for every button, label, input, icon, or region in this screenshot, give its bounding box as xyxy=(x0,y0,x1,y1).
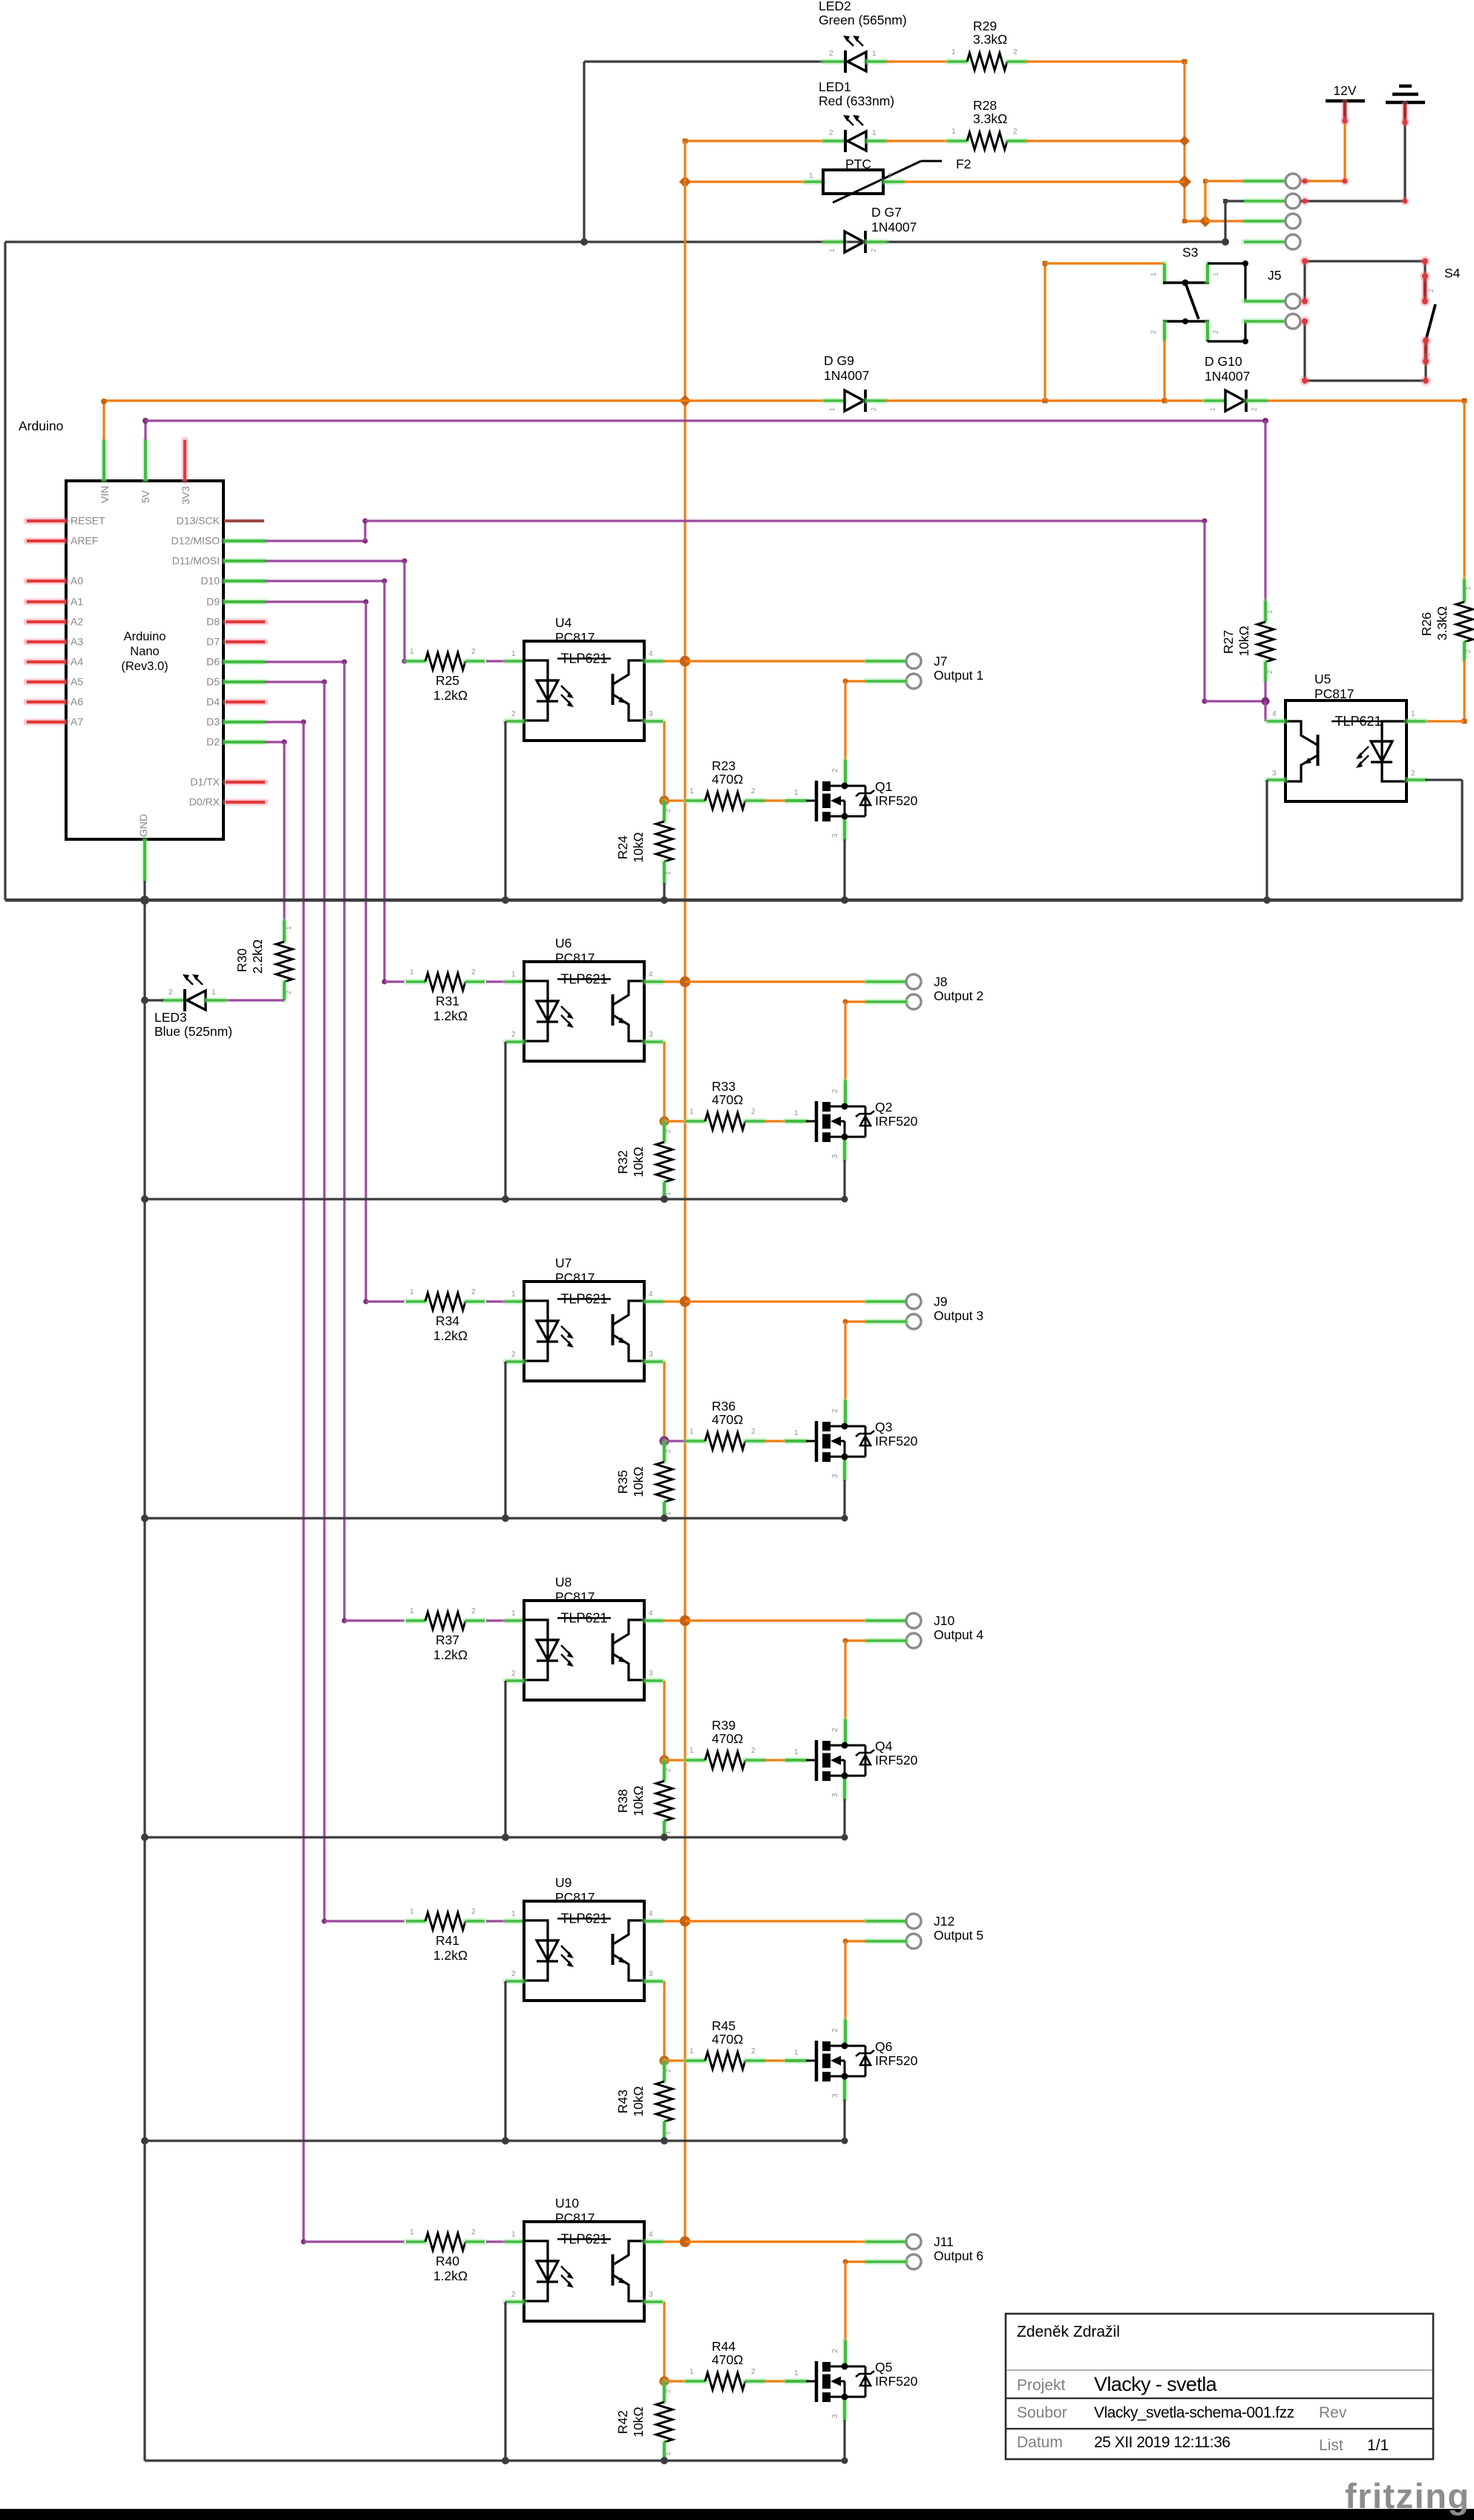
svg-text:10kΩ: 10kΩ xyxy=(1236,626,1251,656)
wire J9 pin2 to Q3 drain xyxy=(845,1320,866,1322)
svg-text:470Ω: 470Ω xyxy=(712,2352,743,2367)
svg-text:470Ω: 470Ω xyxy=(712,1412,743,1427)
wire 12V vertical bus xyxy=(684,141,686,2242)
svg-text:R45: R45 xyxy=(712,2018,736,2033)
svg-text:1: 1 xyxy=(794,2049,799,2057)
svg-text:D11/MOSI: D11/MOSI xyxy=(172,555,220,567)
pin D10 lead xyxy=(223,578,265,584)
pin RESET stub xyxy=(27,518,66,525)
svg-text:3: 3 xyxy=(831,1793,839,1797)
svg-text:D7: D7 xyxy=(206,636,220,648)
wire 12V bus to J10 pin1 xyxy=(685,1619,866,1621)
pin VIN lead xyxy=(101,440,107,481)
svg-text:Vlacky - svetla: Vlacky - svetla xyxy=(1094,2373,1218,2395)
svg-text:Blue (525nm): Blue (525nm) xyxy=(154,1024,232,1039)
svg-text:R40: R40 xyxy=(436,2254,459,2268)
svg-text:2: 2 xyxy=(664,809,672,813)
pin AREF stub xyxy=(27,538,66,545)
wire U4 pin4 to 12V bus xyxy=(663,660,685,662)
svg-text:2: 2 xyxy=(511,1351,516,1359)
pin GND lead xyxy=(142,839,148,881)
svg-text:LED3: LED3 xyxy=(154,1010,187,1025)
resistor R39 470 xyxy=(686,1757,705,1763)
pin U6.1 lead xyxy=(505,979,524,985)
svg-text:R29: R29 xyxy=(973,19,997,33)
svg-text:U10: U10 xyxy=(555,2196,579,2211)
svg-text:4: 4 xyxy=(649,650,653,658)
wire R41 to U9 pin1 xyxy=(486,1920,507,1922)
svg-text:Q4: Q4 xyxy=(875,1739,893,1753)
node gate Q5 xyxy=(659,2376,669,2386)
pin U9.2 lead xyxy=(505,1978,524,1984)
svg-text:1.2kΩ: 1.2kΩ xyxy=(433,2268,468,2283)
svg-text:A5: A5 xyxy=(71,676,83,688)
svg-text:470Ω: 470Ω xyxy=(712,2032,743,2047)
pin U4.2 lead xyxy=(505,718,524,724)
svg-text:2: 2 xyxy=(511,2291,516,2299)
wire D10 to R31 xyxy=(265,580,384,582)
wire U4 pin2 to ground bus xyxy=(504,721,506,900)
svg-text:1: 1 xyxy=(511,1290,516,1299)
svg-text:J11: J11 xyxy=(934,2234,954,2249)
pin Q4.1 gate lead xyxy=(785,1757,806,1763)
svg-text:U7: U7 xyxy=(555,1256,571,1270)
svg-text:3: 3 xyxy=(831,1154,839,1158)
svg-text:U4: U4 xyxy=(555,615,572,630)
svg-text:D5: D5 xyxy=(206,676,220,688)
wire gate node to R44 xyxy=(664,2380,687,2382)
pin J8.1 lead xyxy=(866,979,906,985)
svg-text:J7: J7 xyxy=(934,654,947,669)
svg-text:1: 1 xyxy=(1212,272,1219,276)
pin Q3.2 drain lead xyxy=(842,1400,848,1426)
pin D7 stub xyxy=(226,639,265,646)
svg-text:10kΩ: 10kΩ xyxy=(631,2406,646,2437)
wire ground to header pin2 xyxy=(1403,122,1406,201)
resistor R33 470 xyxy=(686,1118,705,1124)
wire U9 pin2 to ground bus xyxy=(504,1981,506,2141)
svg-text:PC817: PC817 xyxy=(555,630,595,645)
svg-text:2: 2 xyxy=(751,1108,756,1116)
svg-text:1.2kΩ: 1.2kΩ xyxy=(433,1948,468,1963)
wire ground bus 2 xyxy=(145,1198,847,1200)
svg-text:2: 2 xyxy=(831,1727,839,1732)
wire PTC to 12V riser xyxy=(903,180,1185,183)
wire PTC row xyxy=(685,180,805,183)
svg-text:Rev: Rev xyxy=(1319,2404,1347,2421)
svg-text:D G10: D G10 xyxy=(1205,354,1242,369)
svg-text:1: 1 xyxy=(410,968,414,977)
svg-text:3: 3 xyxy=(649,2291,653,2299)
svg-text:2: 2 xyxy=(168,988,173,997)
svg-text:4: 4 xyxy=(649,1610,653,1618)
resistor R24 10k xyxy=(661,801,667,821)
pin Q6.2 drain lead xyxy=(842,2020,848,2046)
pin A5 stub xyxy=(27,679,66,686)
svg-text:R28: R28 xyxy=(973,98,997,113)
pin Q5.1 gate lead xyxy=(785,2378,806,2384)
svg-text:1: 1 xyxy=(511,971,516,979)
svg-text:1: 1 xyxy=(794,789,799,797)
svg-text:3: 3 xyxy=(649,1031,653,1039)
wire R28 to 12V rail xyxy=(1025,140,1185,142)
svg-text:Zdeněk Zdražil: Zdeněk Zdražil xyxy=(1017,2323,1120,2340)
resistor R45 470 xyxy=(686,2058,705,2064)
svg-text:2: 2 xyxy=(1013,128,1018,136)
wire R44 to Q5 gate xyxy=(764,2380,787,2382)
pin J10.1 lead xyxy=(866,1618,906,1624)
svg-text:A3: A3 xyxy=(71,636,83,648)
svg-text:D13/SCK: D13/SCK xyxy=(177,515,220,527)
svg-text:PTC: PTC xyxy=(845,157,871,171)
pin U5.4 lead xyxy=(1267,718,1285,724)
pin Q1.1 gate lead xyxy=(785,798,806,804)
svg-text:D0/RX: D0/RX xyxy=(189,796,220,808)
wire U9 pin4 to 12V bus xyxy=(663,1920,685,1922)
svg-text:2: 2 xyxy=(831,2349,839,2353)
junction 12V D G9 xyxy=(679,395,691,407)
svg-text:R42: R42 xyxy=(615,2410,630,2434)
wire U7 pin4 to 12V bus xyxy=(663,1300,685,1302)
resistor R28 3.3k xyxy=(948,138,967,144)
svg-text:LED1: LED1 xyxy=(819,79,851,94)
svg-text:Arduino: Arduino xyxy=(124,630,166,643)
svg-text:U9: U9 xyxy=(555,1875,571,1890)
svg-text:1/1: 1/1 xyxy=(1367,2437,1389,2454)
wire U8 pin3 to gate node xyxy=(663,1681,665,1760)
svg-text:3V3: 3V3 xyxy=(180,486,191,505)
svg-text:R39: R39 xyxy=(712,1718,736,1733)
wire Q3 source to ground bus xyxy=(842,1457,848,1480)
svg-text:2: 2 xyxy=(831,1089,839,1093)
pin U9.1 lead xyxy=(505,1918,524,1924)
connector header 4pin xyxy=(1244,178,1285,184)
svg-text:R32: R32 xyxy=(615,1150,630,1174)
wire D9 to R34 xyxy=(265,600,366,603)
pin 3V3 stub xyxy=(182,440,189,481)
wire gate node to R23 xyxy=(664,799,687,801)
svg-text:R25: R25 xyxy=(436,673,459,688)
node gate Q4 xyxy=(659,1755,669,1765)
wire 12V rail to LED1 xyxy=(685,140,823,142)
svg-text:R41: R41 xyxy=(436,1933,459,1948)
svg-text:J8: J8 xyxy=(934,974,947,989)
svg-text:4: 4 xyxy=(1272,710,1277,718)
wire 12V bus to J9 pin1 xyxy=(685,1300,866,1302)
pin A6 stub xyxy=(27,699,66,706)
svg-text:PC817: PC817 xyxy=(555,1589,595,1604)
svg-text:Output 3: Output 3 xyxy=(934,1308,983,1323)
wire R34 to U7 pin1 xyxy=(486,1300,507,1302)
svg-text:1: 1 xyxy=(664,1192,672,1195)
svg-text:2: 2 xyxy=(1266,670,1274,674)
svg-text:A4: A4 xyxy=(71,656,83,668)
svg-text:2: 2 xyxy=(831,768,839,772)
svg-text:10kΩ: 10kΩ xyxy=(631,1146,646,1177)
wire D G10 to U5 pin1 xyxy=(1267,399,1464,401)
wire U10 pin2 to ground bus xyxy=(504,2302,506,2461)
wire U4 pin3 to gate node xyxy=(663,721,665,801)
svg-text:D8: D8 xyxy=(206,616,220,628)
svg-text:1: 1 xyxy=(511,2231,516,2239)
pin U7.1 lead xyxy=(505,1299,524,1305)
svg-text:Q1: Q1 xyxy=(875,779,892,794)
wire U8 pin4 to 12V bus xyxy=(663,1619,685,1621)
wire 12V bus to J8 pin1 xyxy=(685,980,866,982)
svg-text:1: 1 xyxy=(872,129,877,137)
resistor R43 10k xyxy=(661,2061,667,2081)
svg-text:2.2kΩ: 2.2kΩ xyxy=(250,939,265,974)
svg-text:AREF: AREF xyxy=(71,535,98,547)
svg-text:1: 1 xyxy=(410,1288,414,1296)
svg-text:R24: R24 xyxy=(615,836,630,859)
svg-text:U8: U8 xyxy=(555,1575,571,1589)
svg-text:2: 2 xyxy=(1013,48,1018,56)
pin D9 lead xyxy=(223,599,265,605)
LED LED2 xyxy=(823,59,845,65)
pin U8.1 lead xyxy=(505,1618,524,1624)
wire 12V bus to J7 pin1 xyxy=(685,660,866,662)
svg-text:2: 2 xyxy=(751,787,756,795)
svg-text:D4: D4 xyxy=(206,696,220,708)
wire J12 pin2 to Q6 drain xyxy=(845,1940,866,1942)
resistor R23 470 xyxy=(686,798,705,804)
wire J7 pin2 to Q1 drain xyxy=(845,680,866,682)
svg-text:D3: D3 xyxy=(206,716,220,728)
pin U7.4 lead xyxy=(644,1299,663,1305)
svg-text:4: 4 xyxy=(649,1290,653,1299)
optocoupler U8 PC817 xyxy=(524,1601,644,1700)
bottom bar xyxy=(0,2509,1474,2520)
pin U8.2 lead xyxy=(505,1678,524,1684)
resistor R26 3.3k xyxy=(1463,401,1465,580)
svg-text:1: 1 xyxy=(1464,586,1472,590)
svg-text:2: 2 xyxy=(664,2389,672,2393)
svg-text:D9: D9 xyxy=(206,596,220,608)
transistor Q2 IRF520 xyxy=(806,1120,816,1123)
svg-text:1: 1 xyxy=(951,128,956,136)
svg-text:U6: U6 xyxy=(555,936,571,951)
wire U7 pin3 to gate node xyxy=(663,1362,665,1441)
svg-text:4: 4 xyxy=(649,1910,653,1918)
pin J9.1 lead xyxy=(866,1299,906,1305)
svg-text:2: 2 xyxy=(285,991,292,994)
svg-text:R36: R36 xyxy=(712,1399,736,1414)
LED LED3 xyxy=(163,997,185,1003)
wire header pin2 gnd branch xyxy=(1225,200,1244,202)
svg-text:Datum: Datum xyxy=(1017,2434,1063,2451)
wire U10 pin4 to 12V bus xyxy=(663,2240,685,2242)
connector J10 xyxy=(906,1613,921,1628)
pin U10.4 lead xyxy=(644,2239,663,2245)
wire R40 to U10 pin1 xyxy=(486,2240,507,2242)
svg-text:Output 4: Output 4 xyxy=(934,1627,983,1642)
optocoupler U9 PC817 xyxy=(524,1901,644,2001)
wire 12V riser right xyxy=(1183,62,1185,221)
wire Q6 source to ground bus xyxy=(842,2076,848,2099)
pin U10.2 lead xyxy=(505,2299,524,2305)
wire VIN to 12V input xyxy=(102,401,105,440)
wire D6 to R37 xyxy=(265,660,344,663)
svg-text:Output 1: Output 1 xyxy=(934,668,983,683)
pin U4.3 lead xyxy=(644,718,663,724)
svg-text:3.3kΩ: 3.3kΩ xyxy=(1435,606,1450,640)
wire J11 pin2 to Q5 drain xyxy=(845,2260,866,2263)
wire U6 pin4 to 12V bus xyxy=(663,980,685,982)
wire gate node to R36 xyxy=(664,1440,687,1442)
svg-text:1: 1 xyxy=(285,926,292,930)
svg-text:2: 2 xyxy=(471,1607,476,1615)
LED LED1 xyxy=(823,138,845,144)
svg-text:3: 3 xyxy=(831,1474,839,1478)
svg-text:470Ω: 470Ω xyxy=(712,1092,743,1107)
svg-text:1: 1 xyxy=(689,1428,694,1436)
wire LED3 to GND rail xyxy=(145,999,163,1001)
pin D3 lead xyxy=(223,719,265,725)
svg-text:1: 1 xyxy=(410,1908,414,1916)
svg-text:PC817: PC817 xyxy=(555,1890,595,1905)
wire header pin3 branch xyxy=(1205,220,1244,222)
svg-text:1: 1 xyxy=(809,172,813,180)
svg-text:4: 4 xyxy=(649,2231,653,2239)
svg-text:R35: R35 xyxy=(615,1470,630,1494)
wire Q1 source to ground bus xyxy=(842,816,848,839)
pin Q1.2 drain lead xyxy=(842,760,848,786)
svg-text:1.2kΩ: 1.2kΩ xyxy=(433,1647,468,1662)
junction 12V J9 xyxy=(680,1296,690,1307)
svg-text:GND: GND xyxy=(137,814,149,837)
svg-text:A6: A6 xyxy=(71,696,83,708)
svg-text:R38: R38 xyxy=(615,1789,630,1813)
resistor R41 1.2k xyxy=(406,1918,425,1924)
svg-text:1N4007: 1N4007 xyxy=(1205,369,1250,384)
resistor R35 10k xyxy=(661,1441,667,1462)
pin J8.2 lead xyxy=(866,999,906,1005)
svg-text:1.2kΩ: 1.2kΩ xyxy=(433,1328,468,1343)
resistor R44 470 xyxy=(686,2378,705,2384)
svg-text:2: 2 xyxy=(1464,649,1472,653)
svg-text:Arduino: Arduino xyxy=(19,419,63,433)
diode D G7 1N4007 xyxy=(824,239,845,245)
svg-text:Nano: Nano xyxy=(130,645,159,658)
wire U6 pin2 to ground bus xyxy=(504,1042,506,1199)
svg-text:10kΩ: 10kΩ xyxy=(631,2086,646,2116)
wire D11/MOSI to R25 xyxy=(265,560,404,562)
svg-text:10kΩ: 10kΩ xyxy=(631,1466,646,1497)
wire R31 to U6 pin1 xyxy=(486,980,507,982)
svg-text:2: 2 xyxy=(751,2368,756,2376)
svg-text:1N4007: 1N4007 xyxy=(824,368,869,383)
connector J7 xyxy=(906,654,921,669)
pin J11.2 lead xyxy=(866,2259,906,2265)
svg-text:1: 1 xyxy=(689,2368,694,2376)
svg-text:J5: J5 xyxy=(1268,268,1281,283)
junction 12V J7 xyxy=(680,656,690,666)
svg-text:PC817: PC817 xyxy=(555,2211,595,2225)
svg-text:1: 1 xyxy=(1150,272,1157,276)
svg-text:R30: R30 xyxy=(235,948,249,972)
pin J11.1 lead xyxy=(866,2239,906,2245)
svg-text:1: 1 xyxy=(794,1429,799,1437)
svg-text:Output 2: Output 2 xyxy=(934,988,983,1003)
svg-text:PC817: PC817 xyxy=(555,951,595,965)
pin U9.3 lead xyxy=(644,1978,663,1984)
wire D G9 to S3 xyxy=(885,399,1165,401)
node gate Q1 xyxy=(659,795,669,805)
wire LED2 cathode to D G7 net xyxy=(584,60,823,62)
svg-text:IRF520: IRF520 xyxy=(875,2053,918,2068)
svg-text:IRF520: IRF520 xyxy=(875,1114,918,1129)
wire Q4 source to ground bus xyxy=(842,1776,848,1799)
svg-text:2: 2 xyxy=(831,2028,839,2032)
svg-text:RESET: RESET xyxy=(71,515,105,527)
svg-text:A1: A1 xyxy=(71,596,83,608)
pin U8.4 lead xyxy=(644,1618,663,1624)
pin U7.2 lead xyxy=(505,1359,524,1365)
svg-text:J12: J12 xyxy=(934,1914,954,1929)
svg-text:1: 1 xyxy=(872,50,877,58)
junction 12V J11 xyxy=(680,2237,690,2247)
wire 12V to header pin1 xyxy=(1343,121,1346,181)
pin U10.3 lead xyxy=(644,2299,663,2305)
svg-text:J10: J10 xyxy=(934,1613,954,1628)
pin D2 lead xyxy=(223,739,265,745)
optocoupler U10 PC817 xyxy=(524,2222,644,2321)
pin D12/MISO lead xyxy=(223,538,265,544)
wire D2 to R30 xyxy=(265,741,284,743)
svg-text:1: 1 xyxy=(1411,710,1415,718)
svg-text:2: 2 xyxy=(511,710,516,718)
svg-text:R43: R43 xyxy=(615,2090,630,2113)
optocoupler U6 PC817 xyxy=(524,962,644,1061)
svg-text:1: 1 xyxy=(212,988,216,997)
diode D G10 1N4007 xyxy=(1205,398,1225,404)
svg-text:(Rev3.0): (Rev3.0) xyxy=(121,660,168,673)
svg-text:4: 4 xyxy=(649,971,653,979)
svg-text:1N4007: 1N4007 xyxy=(871,220,917,234)
svg-text:2: 2 xyxy=(870,407,877,411)
wire R36 to Q3 gate xyxy=(764,1440,787,1442)
svg-text:1: 1 xyxy=(794,2369,799,2378)
pin J12.2 lead xyxy=(866,1938,906,1944)
svg-text:IRF520: IRF520 xyxy=(875,1434,918,1448)
fuse F2 PTC xyxy=(805,179,823,185)
pin A1 stub xyxy=(27,599,66,606)
wire 12V bus to J12 pin1 xyxy=(685,1920,866,1922)
svg-text:D G9: D G9 xyxy=(824,353,854,368)
svg-text:1: 1 xyxy=(511,1610,516,1618)
wire Q2 source to ground bus xyxy=(842,1137,848,1160)
wire ground bus 1 xyxy=(5,899,1462,902)
svg-text:1: 1 xyxy=(511,650,516,658)
svg-text:2: 2 xyxy=(829,50,833,58)
wire R33 to Q2 gate xyxy=(764,1120,787,1122)
svg-text:3: 3 xyxy=(649,1351,653,1359)
svg-text:S4: S4 xyxy=(1444,266,1461,280)
wire ground left border xyxy=(4,242,6,900)
resistor R30 2.2k xyxy=(281,921,287,942)
svg-text:2: 2 xyxy=(471,1908,476,1916)
svg-text:LED2: LED2 xyxy=(819,0,851,13)
svg-text:2: 2 xyxy=(664,1129,672,1133)
svg-text:1: 1 xyxy=(410,1607,414,1615)
svg-text:Green (565nm): Green (565nm) xyxy=(819,13,907,27)
svg-text:S3: S3 xyxy=(1182,245,1198,260)
svg-text:2: 2 xyxy=(1411,770,1415,778)
pin Q3.1 gate lead xyxy=(785,1438,806,1444)
pin U6.4 lead xyxy=(644,979,663,985)
Arduino Nano U-module xyxy=(66,481,223,839)
